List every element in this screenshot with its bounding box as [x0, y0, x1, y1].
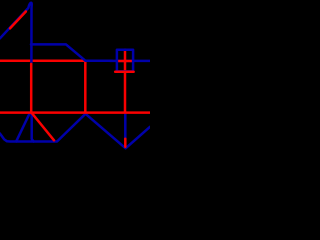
wire: red vertical V1 below crossing: [30, 64, 33, 113]
wire: red segment of diagonal: [10, 12, 26, 29]
wire: bottom blue rail + W zigzag: [0, 114, 150, 149]
wire: steep blue diagonal D3: [16, 113, 30, 142]
wire: lower-left blue vertical with curl into rail: [32, 114, 34, 142]
tick1 red cross arm: [118, 60, 132, 63]
tick2 red cross arm over box bottom: [115, 70, 133, 73]
wire: blue branch from T at (31,44.4) to bend, down-slope: [31, 44, 112, 60]
red vertical V3 through box: [124, 50, 127, 113]
wire: red diagonal D2: [32, 113, 54, 141]
wire: top-left blue diagonal + apex + upper vertical: [0, 3, 32, 63]
wire: blue drop below bus at x=125.3: [124, 114, 127, 139]
wire: blue rail right section through box to edge: [110, 60, 150, 63]
wire: red tip at V bottom: [124, 139, 127, 147]
component box (blue rectangle): [117, 50, 133, 72]
red bus H1 with corner down to V2: [0, 61, 85, 113]
bottom red bus H5: [0, 111, 150, 114]
